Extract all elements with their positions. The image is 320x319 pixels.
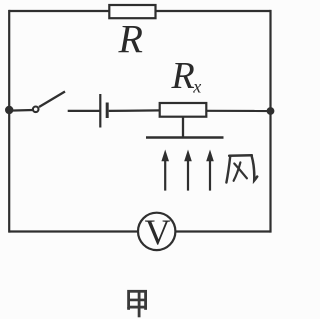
voltmeter V <box>138 212 175 252</box>
node right junction <box>267 107 275 115</box>
wire top-left segment <box>9 10 110 12</box>
wire battery to Rx <box>109 109 161 112</box>
sensor plate <box>146 136 224 138</box>
wind arrow 1 <box>161 150 169 191</box>
wire Rx to right junction <box>206 110 271 112</box>
wind arrow 3 <box>206 150 214 191</box>
switch S <box>33 92 65 113</box>
label 甲 (caption) <box>129 290 146 317</box>
resistor R <box>109 5 155 18</box>
wire switch to battery <box>68 110 100 112</box>
label Rx <box>171 55 202 97</box>
resistor Rx <box>160 103 207 117</box>
svg-text:V: V <box>145 212 171 252</box>
wire dot to switch <box>9 109 33 112</box>
wire bottom-left to voltmeter <box>9 230 138 232</box>
wire top-right segment <box>155 10 271 12</box>
sensor stem <box>182 117 184 138</box>
wind arrow 2 <box>184 150 192 191</box>
wire left side <box>8 10 10 233</box>
svg-text:x: x <box>192 77 201 97</box>
wire voltmeter to bottom-right <box>176 230 271 232</box>
svg-text:R: R <box>171 55 195 97</box>
node left junction <box>5 106 13 114</box>
wire right side <box>269 10 271 233</box>
label 风 (wind) <box>226 155 257 182</box>
svg-text:R: R <box>118 17 143 62</box>
battery cell <box>100 94 107 128</box>
